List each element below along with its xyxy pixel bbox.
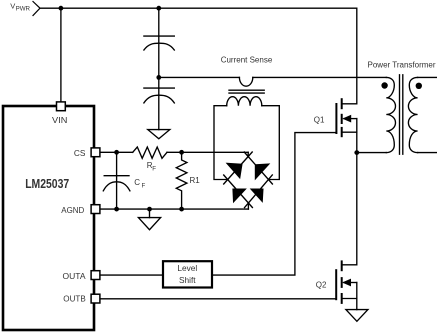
power transformer primary winding <box>386 77 395 152</box>
pin OUTB <box>91 294 100 303</box>
wire Q1 source to Q2 drain <box>342 153 357 265</box>
svg-text:Q2: Q2 <box>316 280 327 289</box>
wire C2 to ground <box>158 88 160 130</box>
svg-text:Shift: Shift <box>179 275 196 285</box>
node R1 bottom <box>179 207 184 212</box>
svg-text:V: V <box>10 1 15 10</box>
wire CF leads <box>116 152 118 175</box>
node AGND ground <box>147 207 152 212</box>
node CF bottom <box>114 207 119 212</box>
svg-text:C: C <box>134 178 140 187</box>
node CS/CF <box>114 150 119 155</box>
wire VPWR rail to Q1 drain <box>40 8 357 104</box>
wire current-sense line left <box>159 76 240 78</box>
node A (R1 top) <box>179 150 184 155</box>
current sense transformer primary hump <box>239 77 252 86</box>
transistor Q1 <box>336 99 341 136</box>
wire bridge bottom to AGND rail <box>247 203 249 209</box>
node Q1 source <box>354 150 359 155</box>
capacitor CF <box>104 175 129 177</box>
wire RF to node A <box>167 151 248 153</box>
wire secondary right to bridge <box>262 106 280 180</box>
diode D3 (bottom-left) <box>233 189 246 202</box>
current sense transformer core <box>229 89 264 91</box>
svg-text:OUTA: OUTA <box>63 272 87 281</box>
wire CS pin to RF <box>100 151 133 153</box>
svg-text:Power Transformer: Power Transformer <box>368 61 436 70</box>
wire VIN drop <box>60 8 62 102</box>
diode D4 (bottom-right) <box>251 189 263 202</box>
svg-text:AGND: AGND <box>61 206 84 215</box>
node cap tap <box>156 6 161 11</box>
svg-text:Current Sense: Current Sense <box>221 56 273 65</box>
pin OUTA <box>91 271 100 280</box>
phase dot secondary <box>416 83 422 89</box>
svg-text:LM25037: LM25037 <box>25 176 69 191</box>
wire AGND ground stub <box>149 209 151 218</box>
resistor R1 <box>176 152 187 209</box>
svg-text:Level: Level <box>177 263 197 273</box>
svg-text:CS: CS <box>74 149 86 158</box>
wire OUTA to level shift <box>100 274 163 276</box>
svg-text:Q1: Q1 <box>314 115 325 124</box>
level shift block U2 <box>163 261 212 287</box>
ground (Q2 source) <box>346 310 368 322</box>
IC U1 LM25037 box <box>3 106 94 330</box>
svg-text:OUTB: OUTB <box>63 295 86 304</box>
diode D1 (top-left) <box>227 163 242 178</box>
transistor Q2 <box>336 261 342 303</box>
wire secondary left to bridge <box>214 106 228 180</box>
pin CS <box>91 148 100 157</box>
pin AGND <box>91 205 100 214</box>
svg-text:F: F <box>152 165 156 172</box>
node current sense tap <box>156 75 161 80</box>
power transformer secondary winding <box>408 77 417 152</box>
svg-text:PWR: PWR <box>16 6 31 13</box>
power transformer core <box>399 75 401 154</box>
wire cap branch drop <box>158 8 160 36</box>
wire OUTB to Q2 gate <box>100 298 336 300</box>
ground (caps) <box>148 130 170 139</box>
capacitor C1 <box>144 35 174 37</box>
wire AGND rail <box>100 208 248 210</box>
wire current-sense line right <box>253 76 386 78</box>
diode D2 (top-right) <box>255 164 269 179</box>
resistor RF <box>133 147 167 158</box>
input connector VPWR <box>33 2 40 16</box>
wire Q1 source to transformer <box>357 152 387 154</box>
wire C1 to node <box>158 36 160 88</box>
phase dot primary <box>381 82 387 88</box>
svg-text:VIN: VIN <box>52 116 67 125</box>
wire level shift to Q1 gate <box>213 133 336 276</box>
wire node A drop to bridge top <box>247 152 249 157</box>
node VIN tap <box>59 6 64 11</box>
ground (AGND) <box>138 218 160 230</box>
capacitor C2 <box>144 87 174 89</box>
svg-text:R1: R1 <box>190 176 201 185</box>
pin VIN <box>57 102 66 111</box>
current sense transformer secondary <box>227 97 262 106</box>
diode bridge edges <box>224 152 253 184</box>
svg-text:F: F <box>142 182 146 189</box>
